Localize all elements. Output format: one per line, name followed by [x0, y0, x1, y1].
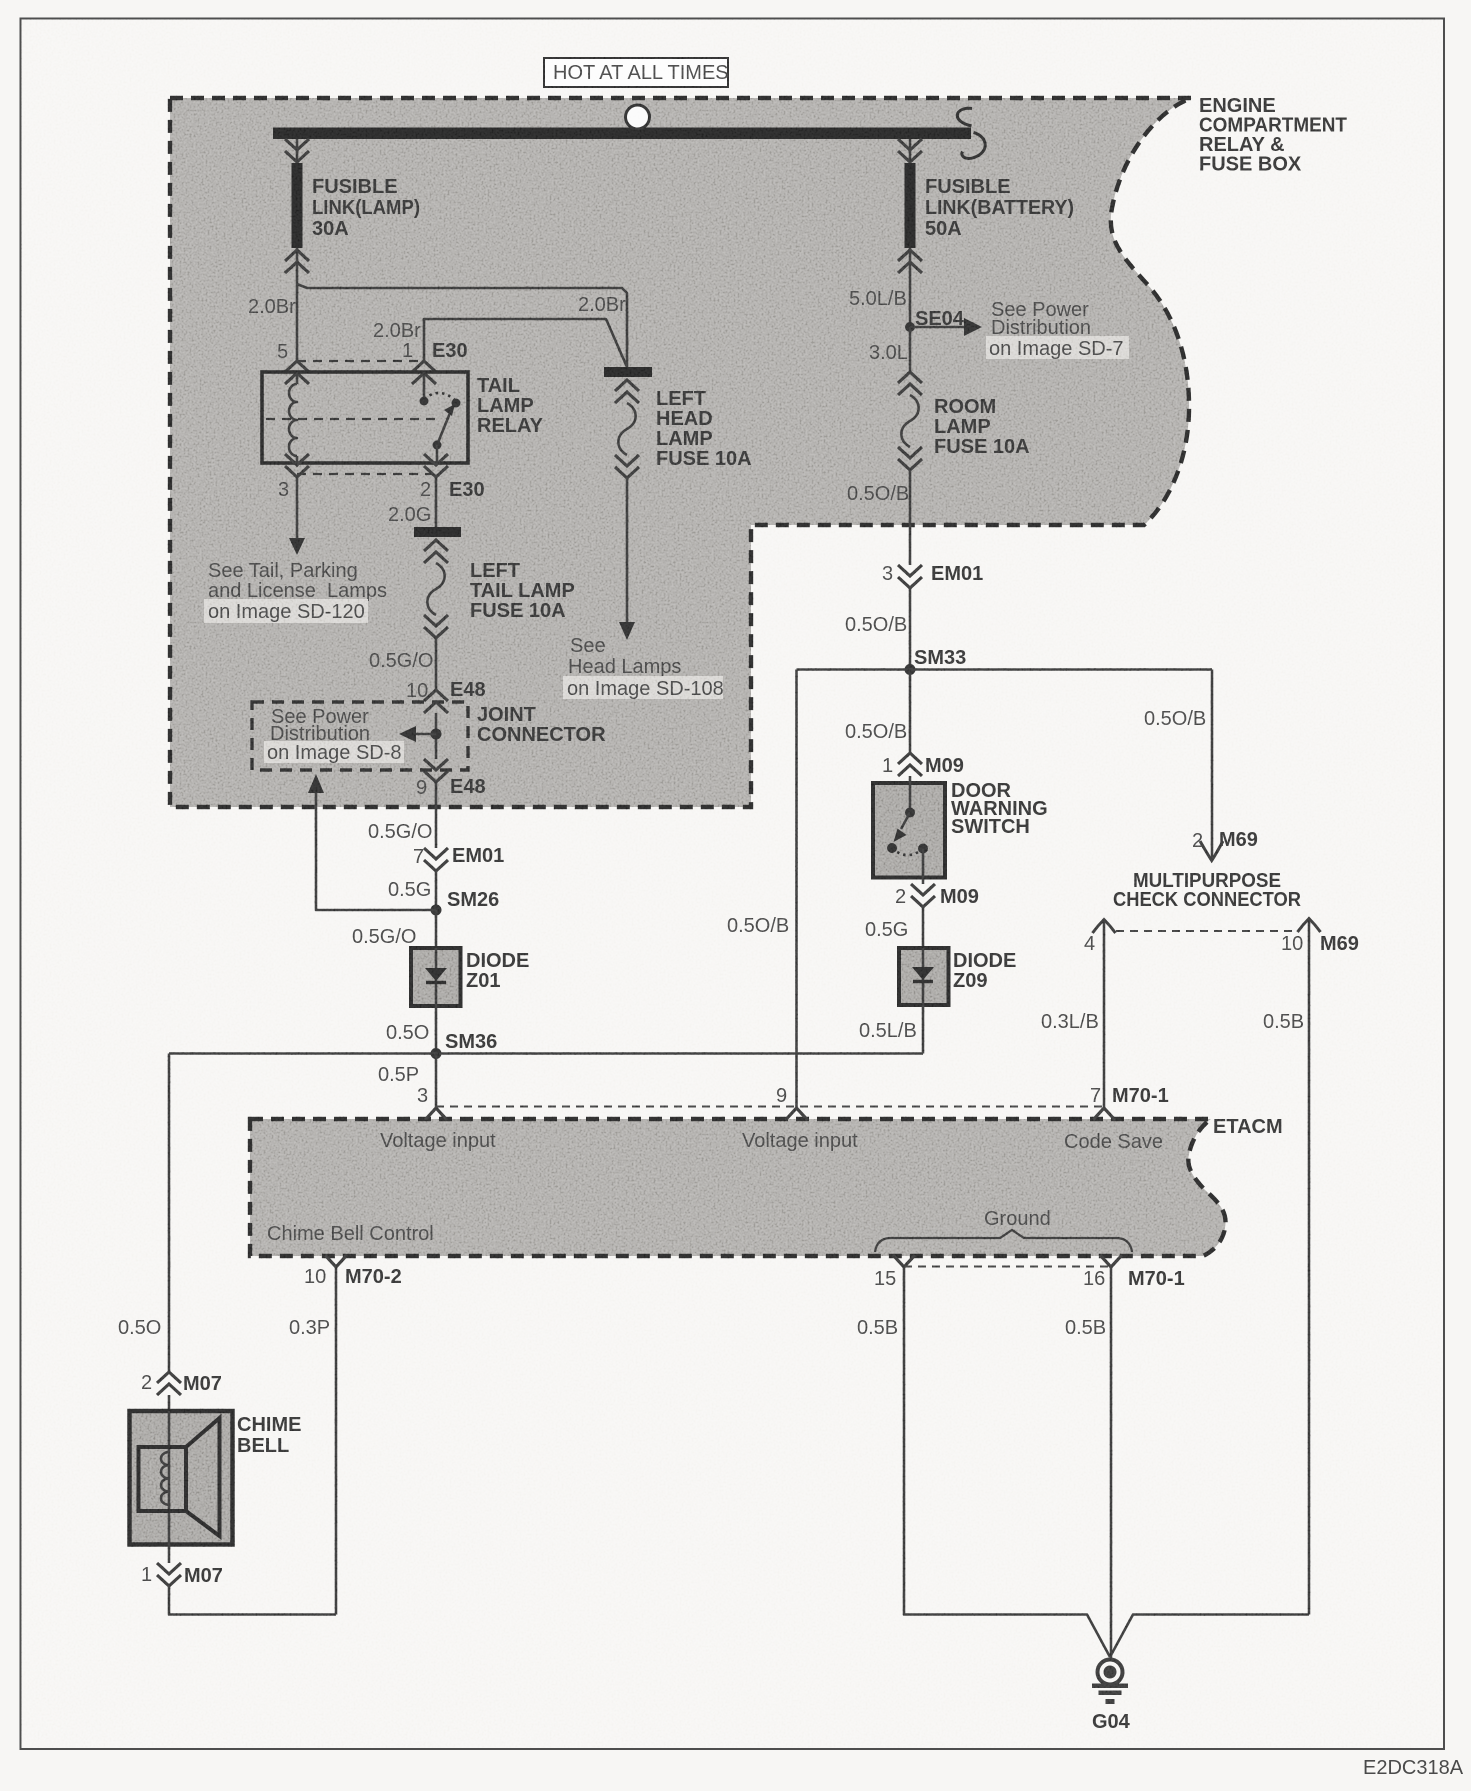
- wire fuse to joint connector 0.5G/O: [435, 638, 438, 690]
- see tail parking lamps note: [208, 560, 387, 602]
- fusible link lamp label: [312, 176, 420, 240]
- wire pin3 to see-tail arrow: [289, 477, 305, 555]
- left tail lamp fuse holder bar: [414, 527, 461, 537]
- wire branch to relay pin 1: [424, 319, 627, 367]
- ETACM pin 9 fork: [786, 1108, 808, 1120]
- chime bell speaker body: [139, 1447, 187, 1511]
- wire 2.0G pin2 to left tail lamp fuse: [435, 477, 438, 527]
- see power SD-7 note: [991, 299, 1091, 339]
- wire 5.0L/B fusible link to SE04: [909, 248, 912, 327]
- wire diode Z09 to SM36 rail 0.5L/B: [922, 1005, 925, 1054]
- relay pin1 internal wire: [423, 372, 426, 399]
- tail lamp relay box: [262, 372, 468, 463]
- wire M09 to diode Z09 0.5G: [922, 907, 925, 948]
- door switch top wire: [909, 776, 912, 811]
- fusible link lamp element: [292, 163, 303, 248]
- node SM36 dot: [431, 1048, 442, 1059]
- diode Z01 wire through: [435, 948, 438, 1006]
- ETACM pin 7 fork: [1093, 1108, 1115, 1120]
- fusible link battery element: [905, 163, 916, 248]
- engine compartment relay & fuse box shaded region: [170, 98, 1192, 807]
- node SM33 dot: [905, 664, 916, 675]
- chime bell label: [237, 1414, 301, 1457]
- joint connector bottom chevrons E48 pin 9: [424, 759, 448, 782]
- ETACM pin 15 fork: [893, 1255, 915, 1267]
- wire SM26 branch to power distribution arrow: [308, 774, 436, 910]
- left tail lamp fuse label: [470, 560, 575, 622]
- diode Z01 symbol: [425, 968, 447, 983]
- pin 3 chevrons: [285, 454, 309, 477]
- see tail image link highlight: [204, 599, 368, 623]
- wire diode Z01 to SM36 0.5O: [435, 1006, 438, 1053]
- svg-text:E2DC318A: E2DC318A: [1363, 1757, 1464, 1779]
- connector M70-1 thin dashed line bottom: [904, 1266, 1111, 1268]
- relay dotted contact arc: [424, 393, 456, 401]
- wire SM33 to door warning switch 0.5O/B: [909, 670, 912, 754]
- left tail lamp fuse element: [427, 563, 444, 615]
- wire SM33 left branch to ETACM pin 9: [795, 670, 798, 1108]
- room lamp fuse top chevrons: [898, 372, 922, 395]
- joint connector label: [477, 704, 606, 746]
- wire 0.5B pin 15 to ground: [904, 1267, 1110, 1657]
- left tail lamp fuse top chevrons: [424, 540, 448, 563]
- wire E48 to EM01 0.5G/O: [435, 782, 438, 848]
- door switch dotted arc: [892, 848, 923, 855]
- left head lamp fuse top chevrons: [615, 380, 639, 403]
- connector chevrons below fusible link battery: [898, 250, 922, 273]
- see head lamps highlight: [563, 676, 723, 699]
- ETACM pin 10 fork: [325, 1255, 347, 1267]
- diode Z09 box: [899, 948, 949, 1005]
- wire 0.5B pin 16 to ground: [1110, 1267, 1113, 1658]
- wire bus to fusible link lamp: [296, 139, 299, 163]
- diode Z01 box: [411, 948, 461, 1006]
- connector M70 thin dashed line top: [436, 1106, 1104, 1108]
- multipurpose connector dashed line: [1116, 930, 1292, 932]
- diode Z09 symbol: [912, 967, 934, 982]
- node SM26 dot: [431, 905, 442, 916]
- room lamp fuse bottom chevrons: [898, 447, 922, 470]
- connector chevrons EM01 pin 7: [424, 848, 448, 871]
- relay moving contact dot: [433, 441, 442, 450]
- bus bar terminal circle: [626, 105, 650, 129]
- wire SM26 to diode Z01 0.5G/O: [435, 910, 438, 948]
- chime bell wire through: [168, 1411, 171, 1544]
- wire 0.5O chime bell feed: [168, 1054, 171, 1372]
- multipurpose connector pin 4 arrow: [1093, 920, 1116, 1108]
- door switch right contact dot: [918, 844, 928, 854]
- ETACM pin 3 fork: [425, 1108, 447, 1120]
- wire SM33 horizontal rail: [797, 668, 1213, 671]
- wire 3.0L SE04 to room lamp fuse: [909, 327, 912, 372]
- ETACM shaded region: [250, 1119, 1226, 1256]
- wire SM36 horizontal rail to chime bell and diode Z09: [169, 1052, 923, 1055]
- SE04 arrow to power distribution: [910, 318, 982, 336]
- relay fixed contact dot: [420, 397, 429, 406]
- door warning switch label: [951, 780, 1048, 838]
- ETACM pin 16 fork: [1100, 1255, 1122, 1267]
- joint connector dashed box: [252, 702, 468, 770]
- left tail lamp fuse bottom chevrons: [424, 615, 448, 638]
- joint connector top chevrons E48 pin 10: [424, 690, 448, 713]
- left head lamp fuse label: [656, 388, 752, 470]
- wire bus to fusible link battery: [909, 139, 912, 163]
- relay coil wires to box edge: [296, 372, 299, 463]
- multipurpose connector pin 10 arrow: [1298, 919, 1321, 1615]
- engine compartment relay & fuse box label: [1199, 95, 1347, 176]
- chime bell coil: [161, 1452, 169, 1505]
- connector chevrons M09 pin 1: [898, 753, 922, 776]
- wire branch to left head lamp fuse: [297, 284, 627, 367]
- diode Z01 label: [466, 950, 529, 992]
- wire EM01 to SM33 0.5O/B: [909, 588, 912, 669]
- pin 1 chevrons: [412, 361, 436, 384]
- relay coil: [289, 384, 297, 456]
- joint connector internal wire: [435, 713, 438, 759]
- left head lamp fuse bottom chevrons: [615, 455, 639, 478]
- connector chevrons above fusible link battery: [898, 139, 922, 162]
- node SE04 dot: [905, 322, 915, 332]
- connector chevrons M07 pin 2: [157, 1372, 181, 1395]
- tail lamp relay label: [477, 375, 544, 437]
- see power SD-8 highlight: [264, 741, 404, 763]
- connector E30 dashed line pins 5-1: [297, 360, 424, 362]
- power bus bar: [273, 128, 971, 140]
- relay pin2 internal wire: [436, 445, 439, 463]
- chime bell box: [130, 1411, 233, 1545]
- wire fuse to head lamps arrow: [619, 478, 635, 640]
- diode Z09 label: [953, 950, 1016, 992]
- wire 2.0Br fusible link to relay pin 5: [296, 248, 299, 361]
- wire M69 pin10 down to ground: [1110, 1615, 1309, 1658]
- wire 0.5O/B room fuse to EM01: [909, 470, 912, 565]
- left head lamp fuse element: [618, 403, 635, 455]
- left head lamp fuse holder bar: [604, 367, 652, 377]
- relay right contact dot: [452, 399, 461, 408]
- bus bar continuation hook: [957, 108, 985, 158]
- fusible link battery label: [925, 176, 1074, 240]
- wire SM33 right branch to M69 pin 2 arrow: [1200, 670, 1223, 861]
- door switch left contact dot: [887, 843, 897, 853]
- joint connector arrow to power distribution: [399, 726, 436, 742]
- connector chevrons above fusible link lamp: [285, 139, 309, 162]
- see power SD-7 highlight: [986, 336, 1129, 359]
- see power SD-8 note: [270, 706, 370, 745]
- door switch bottom wire: [922, 849, 925, 885]
- wire EM01 to SM26 0.5G: [435, 871, 438, 909]
- door warning switch box: [873, 783, 945, 878]
- wire chime bell return loop: [169, 1544, 336, 1615]
- room lamp fuse label: [934, 396, 1030, 458]
- pin 2 chevrons: [424, 454, 448, 477]
- see head lamps note: [568, 635, 681, 678]
- pin 5 chevrons: [285, 361, 309, 384]
- multipurpose check connector label: [1113, 870, 1302, 911]
- relay switch arm: [437, 404, 455, 445]
- ground symbol G04: [1092, 1660, 1128, 1705]
- joint connector node dot: [431, 729, 442, 740]
- wire M07 to chime bell: [168, 1395, 171, 1411]
- connector chevrons EM01 pin 3: [898, 565, 922, 588]
- diode Z09 wire through: [922, 948, 925, 1005]
- wire SM36 to ETACM pin 3 0.5P: [435, 1054, 438, 1108]
- room lamp fuse element: [901, 395, 918, 447]
- door switch top contact dot: [905, 808, 915, 818]
- HOT AT ALL TIMES label box: [544, 58, 729, 87]
- door switch arm with arrow: [894, 813, 911, 843]
- connector E30 dashed line pins 3-2: [297, 473, 436, 475]
- ground brace: [875, 1230, 1132, 1252]
- chime bell horn: [186, 1418, 220, 1536]
- wire 0.3P pin 10 to chime loop: [335, 1267, 338, 1615]
- connector chevrons M09 pin 2: [911, 884, 935, 907]
- relay internal dashed link: [266, 418, 440, 420]
- connector chevrons M07 pin 1: [157, 1563, 181, 1586]
- connector chevrons below fusible link lamp: [285, 250, 309, 273]
